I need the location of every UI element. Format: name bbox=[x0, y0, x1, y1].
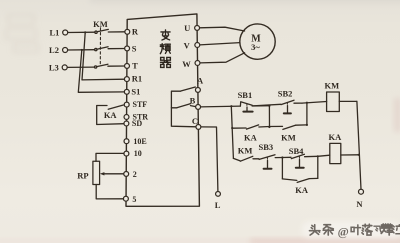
branch vertical SB4 left bbox=[281, 158, 283, 179]
terminal SD bbox=[124, 121, 129, 126]
svg-text:U: U bbox=[184, 23, 190, 33]
terminal C bbox=[196, 124, 201, 129]
svg-text:V: V bbox=[184, 41, 191, 51]
terminal STR bbox=[124, 115, 129, 120]
wm char 条 bbox=[323, 225, 333, 235]
svg-text:L3: L3 bbox=[49, 63, 59, 73]
terminal 5 bbox=[123, 196, 128, 201]
wire KM coil to N rail bbox=[339, 100, 357, 102]
svg-text:10: 10 bbox=[134, 149, 142, 158]
terminal B bbox=[196, 104, 201, 109]
label 变频器 (inverter) drawn as strokes bbox=[160, 30, 170, 67]
svg-text:SB1: SB1 bbox=[238, 90, 253, 100]
terminal 2 bbox=[124, 171, 129, 176]
svg-text:W: W bbox=[182, 59, 191, 69]
wire tap L1 to R1 bbox=[82, 32, 125, 80]
branch vertical row1-row2 mid bbox=[268, 106, 270, 127]
terminal S bbox=[125, 46, 130, 51]
pushbutton SB2 (NO start) bbox=[281, 100, 302, 113]
contactor KM main contact pole 2 bbox=[95, 47, 125, 51]
potentiometer RP body bbox=[93, 161, 100, 184]
svg-text:SD: SD bbox=[132, 119, 142, 128]
wm char 舞 bbox=[381, 224, 393, 235]
svg-text:C: C bbox=[192, 116, 198, 126]
wire L2 to KM contact bbox=[68, 49, 95, 51]
wire L3 to KM contact bbox=[67, 66, 94, 68]
svg-text:KA: KA bbox=[329, 132, 343, 142]
right edge pink smudge bbox=[394, 98, 400, 132]
wire SB4 to KA coil bbox=[318, 155, 330, 156]
char 频 bbox=[160, 44, 170, 54]
wire tap L2 to S1 bbox=[78, 50, 125, 92]
wire L1 to KM contact bbox=[68, 31, 95, 33]
terminal STF bbox=[124, 102, 129, 107]
svg-text:A: A bbox=[197, 75, 204, 85]
char 变 bbox=[161, 30, 170, 40]
terminal A bbox=[195, 87, 200, 92]
svg-text:KA: KA bbox=[295, 185, 309, 195]
potentiometer RP wiring bbox=[96, 153, 124, 161]
watermark backing band bbox=[302, 222, 400, 239]
svg-text:S1: S1 bbox=[131, 87, 140, 97]
wire C to L bbox=[201, 127, 218, 191]
terminal S1 bbox=[124, 89, 129, 94]
watermark 头条@叶落飞舞泣 bbox=[302, 222, 400, 239]
pushbutton SB3 (NO) bbox=[259, 155, 282, 169]
pushbutton SB4 (NO) bbox=[282, 154, 317, 168]
svg-text:KA: KA bbox=[104, 110, 118, 120]
bottom pink stripe bbox=[0, 239, 400, 243]
wire KA coil to N rail bbox=[341, 154, 359, 156]
wm char 叶 bbox=[351, 225, 360, 235]
terminal R bbox=[125, 29, 130, 34]
N rail bbox=[357, 101, 361, 189]
terminal N bbox=[359, 189, 364, 194]
row2 KM contact bbox=[270, 125, 307, 129]
svg-text:B: B bbox=[190, 96, 196, 106]
contactor coil KM bbox=[327, 92, 340, 112]
svg-text:5: 5 bbox=[132, 195, 136, 204]
terminal L bbox=[216, 192, 221, 197]
internal contact arm to B bbox=[171, 104, 195, 108]
svg-text:KM: KM bbox=[324, 80, 339, 90]
top subtle smudge bbox=[90, 0, 400, 3]
terminal V bbox=[195, 43, 200, 48]
svg-text:KM: KM bbox=[238, 146, 253, 156]
terminal L2 bbox=[63, 48, 68, 53]
svg-text:KA: KA bbox=[244, 132, 258, 142]
terminal 10 bbox=[124, 151, 129, 156]
svg-text:STF: STF bbox=[133, 100, 148, 109]
relay contact KA to STF bbox=[97, 105, 125, 125]
terminal R1 bbox=[124, 77, 129, 82]
svg-text:T: T bbox=[132, 61, 138, 71]
wm char 泣 bbox=[393, 225, 400, 234]
KM mechanical link dashed bbox=[99, 28, 101, 65]
svg-text:L: L bbox=[215, 200, 221, 210]
svg-text:L1: L1 bbox=[49, 28, 59, 38]
potentiometer RP wiper arrow bbox=[100, 172, 124, 175]
wire SB2 to KM coil bbox=[302, 102, 327, 104]
branch vertical SB4 right bbox=[317, 156, 319, 178]
svg-text:N: N bbox=[356, 199, 363, 209]
row4 KA contact parallel SB4 bbox=[282, 178, 317, 182]
char 器 bbox=[160, 57, 170, 67]
internal contact arm to A bbox=[181, 87, 196, 91]
wire W to motor bbox=[200, 53, 245, 63]
svg-text:SB4: SB4 bbox=[289, 146, 304, 156]
terminal W bbox=[195, 61, 200, 66]
pushbutton SB1 (NC stop) bbox=[240, 102, 269, 112]
svg-text:@: @ bbox=[338, 224, 349, 238]
svg-text:R: R bbox=[132, 27, 139, 37]
inverter box outline bbox=[126, 14, 199, 206]
svg-text:SB2: SB2 bbox=[278, 89, 293, 99]
terminal U bbox=[195, 25, 200, 30]
svg-text:2: 2 bbox=[133, 170, 137, 179]
svg-text:R1: R1 bbox=[132, 73, 142, 83]
contactor KM main contact pole 3 bbox=[94, 64, 125, 68]
svg-text:S: S bbox=[132, 44, 137, 54]
svg-text:RP: RP bbox=[77, 170, 88, 180]
ghost bleedthrough left margin bbox=[6, 15, 38, 52]
svg-text:KM: KM bbox=[281, 132, 296, 142]
inverter internal fault contact bracket bbox=[171, 91, 196, 127]
terminal L3 bbox=[62, 65, 67, 70]
svg-text:L2: L2 bbox=[49, 45, 59, 55]
svg-text:SB3: SB3 bbox=[258, 142, 273, 152]
row2 KA self-lock contact bbox=[232, 125, 270, 129]
wm char 飞 bbox=[374, 226, 382, 233]
terminal T bbox=[125, 63, 130, 68]
relay coil KA bbox=[330, 143, 341, 163]
terminal 10E bbox=[124, 139, 129, 144]
terminal L1 bbox=[63, 30, 68, 35]
svg-text:3~: 3~ bbox=[251, 42, 260, 52]
wm char 落 bbox=[362, 224, 372, 235]
svg-text:10E: 10E bbox=[133, 137, 146, 146]
motor M circle bbox=[240, 24, 275, 59]
wire U to motor bbox=[200, 27, 245, 31]
row3 KM aux contact bbox=[233, 156, 258, 161]
wm char 头 bbox=[309, 225, 320, 235]
branch vertical row1-row2 right bbox=[306, 103, 308, 125]
wire B to control row1 bbox=[201, 105, 241, 108]
terminal circles bbox=[62, 25, 363, 201]
contactor KM main contact pole 1 bbox=[95, 29, 125, 33]
wire SB1 to SB2 bbox=[252, 104, 281, 106]
wire V to motor bbox=[200, 43, 240, 45]
svg-text:KM: KM bbox=[93, 19, 108, 29]
branch vertical B-row2-row3 bbox=[231, 106, 233, 158]
